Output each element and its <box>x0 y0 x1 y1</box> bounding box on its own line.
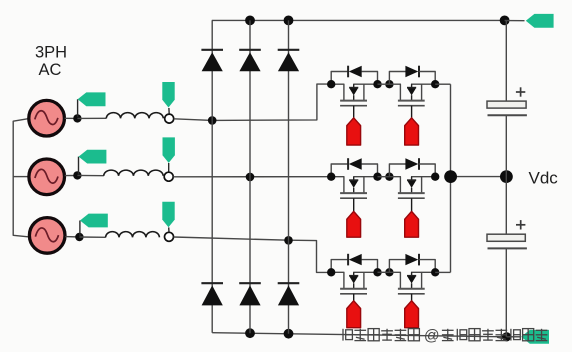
diode D4 (bottom col1) <box>201 283 223 305</box>
mosfet Q1b <box>398 101 425 106</box>
probe stub phase A source <box>77 99 79 117</box>
wire bypass left Q3b <box>389 260 406 273</box>
junction row3 left <box>327 268 335 276</box>
wire midpoint bus <box>450 84 452 272</box>
junction phase A col1 <box>208 116 217 125</box>
gate lead Q1a <box>353 106 355 119</box>
gate probe flag Q2b <box>405 211 419 237</box>
junction row3 right <box>431 268 439 276</box>
probe flag node C <box>162 202 174 228</box>
probe flag phase C source <box>80 214 108 228</box>
wire bridge column 3 <box>288 20 290 333</box>
probe stub node B <box>168 163 170 172</box>
junction bottom bus col3 <box>284 329 294 339</box>
junction top bus col2 <box>245 16 255 26</box>
gate probe flag Q2a <box>347 211 361 237</box>
capacitor C2 <box>487 234 527 248</box>
wire left neutral bus <box>13 119 29 237</box>
gate lead Q2b <box>411 198 413 212</box>
node B terminal <box>164 172 173 181</box>
wire bridge column 2 <box>249 20 251 333</box>
svg-text:@: @ <box>424 327 440 344</box>
junction cap midpoint <box>500 170 513 183</box>
wire bypass right Q1a <box>362 72 378 85</box>
mosfet Q2a <box>340 193 367 198</box>
wire cap bus bottom <box>505 248 507 336</box>
junction row1 right <box>431 80 439 88</box>
wire rail Q3a drain <box>331 272 344 288</box>
diode D3 (top col3) <box>278 50 300 72</box>
probe stub node A <box>168 108 170 114</box>
wire row3 mid link <box>378 271 390 273</box>
probe flag DC+ bus <box>526 14 554 28</box>
svg-text:Vdc: Vdc <box>529 169 559 188</box>
diode bypass D3a <box>348 254 362 266</box>
probe stub phase C source <box>79 221 81 237</box>
junction row3 mid-right <box>385 268 393 276</box>
wire rail Q3b source seg <box>411 271 435 273</box>
diode D6 (bottom col3) <box>278 283 300 305</box>
junction top bus col3 <box>284 16 294 26</box>
wire rail Q3a source seg <box>353 271 377 273</box>
junction row1 mid-right <box>385 80 393 88</box>
probe flag phase B source <box>79 150 107 164</box>
wire rail Q2a source seg <box>353 176 377 178</box>
wire rail Q1b drain <box>389 84 400 100</box>
wire Q2a right stub <box>363 177 365 193</box>
node C terminal <box>165 232 174 241</box>
wire rail Q3b drain <box>389 272 400 288</box>
wire rail Q2a drain <box>331 177 344 193</box>
mosfet Q3b <box>398 289 425 294</box>
diode D5 (bottom col2) <box>239 283 261 305</box>
wire rail Q2b drain <box>389 177 400 193</box>
mosfet Q3a <box>340 289 367 294</box>
wire Q1a right stub <box>363 84 365 100</box>
wire bottom bus probe stub <box>507 336 521 338</box>
wire top bus probe stub <box>505 20 525 22</box>
body diode Q2b <box>407 177 416 193</box>
mosfet Q2b <box>398 193 425 198</box>
junction row1 mid-left <box>373 80 381 88</box>
AC source V2 <box>29 159 65 195</box>
wire row1 mid link <box>378 83 390 85</box>
probe stub phase B source <box>78 157 80 175</box>
wire phase C to switch row 3 <box>289 240 332 272</box>
wire V2 to node <box>65 175 79 177</box>
capacitor C2 plus <box>516 220 525 229</box>
junction bottom bus cap <box>502 332 511 341</box>
wire bypass right Q2b <box>419 164 436 177</box>
wire neutral to source V2 <box>13 176 29 178</box>
wire phase B to switch row 2 <box>173 176 331 178</box>
wire bottom DC bus <box>212 333 506 337</box>
wire V1 to node <box>65 117 79 119</box>
diode bypass D2b <box>405 158 419 170</box>
probe flag phase A source <box>78 92 106 106</box>
inductor L3 <box>106 232 160 238</box>
body diode Q2a <box>349 177 358 193</box>
wire rail Q1a source seg <box>353 83 377 85</box>
wire Q2b right stub <box>421 177 423 193</box>
wire phase C to bridge <box>174 237 289 240</box>
gate lead Q1b <box>411 106 413 119</box>
wire bypass right Q3b <box>419 260 436 273</box>
wire Q3b right stub <box>421 272 423 288</box>
inductor L2 <box>104 170 163 176</box>
junction bottom bus col2 <box>245 328 255 338</box>
AC source V3 <box>29 218 65 254</box>
junction phase B source <box>73 171 81 179</box>
wire bypass left Q3a <box>331 260 348 273</box>
label Vdc <box>529 169 559 188</box>
wire cap bus mid <box>505 115 507 234</box>
junction row1 left <box>327 80 335 88</box>
wire V3 to node <box>65 236 80 238</box>
body diode Q1a <box>349 84 358 100</box>
body diode Q3a <box>349 272 358 288</box>
wire bridge column 1 <box>211 20 213 332</box>
svg-text:3PH: 3PH <box>35 44 67 62</box>
wire midpoint to cap center <box>451 176 507 178</box>
gate probe flag Q1b <box>405 118 419 145</box>
label 3PH AC <box>35 44 67 79</box>
wire row1 to mid bus <box>435 83 450 85</box>
gate lead Q2a <box>353 198 355 212</box>
diode bypass D1a <box>348 66 362 78</box>
junction phase A source <box>73 114 81 122</box>
wire V3 dot to L3 <box>79 236 105 238</box>
junction phase C source <box>75 233 83 241</box>
wire rail Q1b source seg <box>411 83 435 85</box>
wire rail Q2b source seg <box>411 176 435 178</box>
wire top DC bus <box>212 19 505 21</box>
probe flag node A <box>162 82 174 108</box>
junction row2 right <box>431 173 439 181</box>
junction row2 left <box>327 173 335 181</box>
wire Q3a right stub <box>363 272 365 288</box>
wire row3 to mid bus <box>435 271 450 273</box>
wire row2 mid link <box>378 176 390 178</box>
wire bypass right Q1b <box>419 72 436 85</box>
gate lead Q3a <box>353 294 355 302</box>
probe flag DC- bus <box>521 330 549 344</box>
AC source V1 <box>29 100 65 136</box>
capacitor C1 plus <box>516 87 525 96</box>
diode D1 (top col1) <box>201 50 223 72</box>
junction row2 mid-right <box>385 173 393 181</box>
probe flag node B <box>163 137 175 163</box>
svg-text:AC: AC <box>39 61 62 79</box>
wire bypass left Q2b <box>389 164 406 177</box>
probe stub node C <box>168 227 170 232</box>
capacitor C1 <box>487 101 527 115</box>
watermark text <box>343 327 547 344</box>
junction phase C col3 <box>284 236 293 245</box>
body diode Q1b <box>407 84 416 100</box>
gate lead Q3b <box>411 294 413 302</box>
gate probe flag Q3b <box>405 301 419 328</box>
wire bypass left Q2a <box>331 164 348 177</box>
diode D2 (top col2) <box>239 50 261 72</box>
junction top bus cap <box>500 16 510 26</box>
junction phase B col2 <box>246 173 255 182</box>
junction row2 mid-left <box>373 173 381 181</box>
wire bypass right Q2a <box>362 164 378 177</box>
junction midpoint bus <box>444 170 457 183</box>
wire V1 dot to L1 <box>77 117 106 119</box>
mosfet Q1a <box>340 101 367 106</box>
wire bypass left Q1b <box>389 72 406 85</box>
inductor L1 <box>106 113 163 119</box>
wire bypass right Q3a <box>362 260 378 273</box>
wire phase A to switch row 1 <box>212 84 331 120</box>
diode bypass D2a <box>348 158 362 170</box>
wire bypass left Q1a <box>331 72 348 85</box>
junction row3 mid-left <box>373 268 381 276</box>
wire Q1b right stub <box>421 84 423 100</box>
wire V2 dot to L2 <box>77 174 103 176</box>
wire rail Q1a drain <box>331 84 344 100</box>
gate probe flag Q3a <box>347 301 361 328</box>
diode bypass D3b <box>405 254 419 266</box>
node A terminal <box>165 114 174 123</box>
wire phase A to bridge <box>174 119 212 121</box>
body diode Q3b <box>407 272 416 288</box>
diode bypass D1b <box>405 66 419 78</box>
wire cap bus top <box>505 20 507 101</box>
gate probe flag Q1a <box>347 118 361 145</box>
